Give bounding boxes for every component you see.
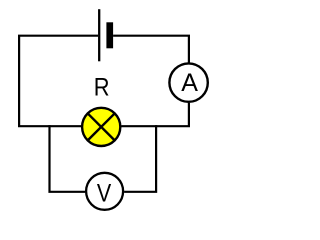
wire top-left loop: from battery left to top-left corner, down left side, to lamp left: [19, 36, 98, 127]
svg-text:V: V: [97, 179, 112, 207]
ammeter A1 circle: [169, 63, 207, 101]
voltmeter label V: [97, 179, 112, 207]
wire top-right: from battery right to top-right corner, down to ammeter top: [113, 36, 189, 63]
svg-text:A: A: [181, 69, 198, 97]
lamp X diagonal 1: [87, 113, 115, 141]
lamp (resistor R) yellow circle: [82, 108, 120, 146]
wire parallel branch right: down from lamp wire to voltmeter right: [124, 125, 156, 192]
wire parallel branch left: down from lamp wire to voltmeter left: [50, 125, 86, 192]
wire right-bottom: from ammeter bottom down and left to lamp right: [121, 103, 189, 126]
battery B1 short electrode (thick bar): [106, 22, 113, 48]
label R: [94, 73, 110, 101]
voltmeter V1 circle: [86, 173, 123, 210]
lamp X diagonal 2: [87, 113, 115, 141]
battery B1 long electrode (thin line): [98, 9, 100, 61]
svg-text:R: R: [94, 73, 110, 101]
